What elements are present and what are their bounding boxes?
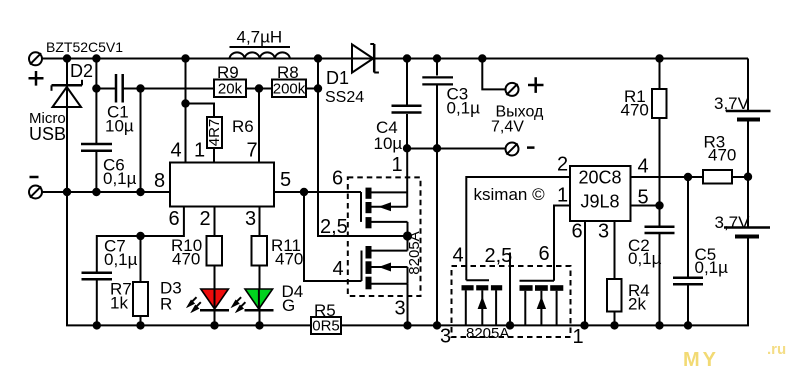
svg-text:0R5: 0R5	[312, 318, 340, 335]
svg-text:2,5: 2,5	[485, 245, 513, 267]
wire right edge upper (to battery GB1)	[747, 59, 749, 111]
svg-text:7: 7	[247, 140, 258, 162]
svg-text:D2: D2	[70, 61, 93, 81]
wire R6 / pin4 column	[185, 59, 187, 163]
node C3 ground	[433, 321, 441, 329]
node pin5 branch	[300, 188, 308, 196]
node C2 ground	[655, 321, 663, 329]
capacitor C2	[628, 227, 675, 268]
node D1 anode rail	[314, 54, 322, 62]
svg-text:1: 1	[392, 154, 403, 176]
svg-text:6: 6	[169, 208, 180, 230]
capacitor C1	[105, 74, 134, 136]
node 2,5 mosfet mid	[403, 231, 412, 240]
resistor R8 200k	[272, 63, 306, 98]
node C1-col bottom	[136, 188, 144, 196]
node C3 mid	[433, 144, 441, 152]
node pin5 IC2 / R1 / C2	[655, 201, 663, 209]
wire pin7 column	[258, 89, 260, 163]
node D2 top / +rail	[63, 54, 71, 62]
svg-text:20C8: 20C8	[578, 168, 621, 188]
label Vyhod 7,4V	[491, 104, 544, 136]
svg-text:10µ: 10µ	[105, 117, 134, 136]
svg-text:2: 2	[557, 154, 568, 176]
svg-text:1: 1	[557, 185, 568, 207]
resistor R3 470	[703, 133, 736, 184]
wire C1 right column	[140, 89, 142, 193]
battery GB1 3,7V	[714, 94, 771, 120]
wire R7 column	[140, 236, 142, 282]
svg-text:20k: 20k	[218, 81, 243, 98]
svg-text:R9: R9	[217, 63, 239, 82]
wire IC1 pin5 to gate 1	[274, 191, 361, 193]
node R1 top rail	[655, 54, 663, 62]
wire plus output	[482, 59, 505, 90]
svg-text:SS24: SS24	[325, 89, 364, 106]
wire battery GB1 to R3 node and battery GB2	[747, 121, 749, 227]
wire C2 column	[659, 206, 661, 226]
wire minus output row	[407, 148, 506, 150]
svg-text:2k: 2k	[628, 295, 646, 314]
node C7 ground	[93, 321, 101, 329]
resistor R11 470	[252, 236, 304, 269]
wire R6 branch to 4R7	[186, 104, 215, 118]
wire battery GB2 to ground rail corner	[341, 238, 748, 325]
node D4 ground	[255, 321, 263, 329]
wire top rail	[42, 58, 748, 60]
wire pin5 branch down to gate 2	[304, 192, 362, 281]
svg-text:3,7V: 3,7V	[715, 213, 751, 232]
resistor R5 0R5	[311, 301, 341, 335]
svg-text:1k: 1k	[110, 294, 128, 313]
node Q1 source ground	[403, 321, 411, 329]
node C5 top	[684, 173, 692, 181]
svg-text:6: 6	[539, 243, 550, 265]
svg-text:J9L8: J9L8	[580, 192, 619, 212]
resistor R9 20k	[214, 63, 246, 98]
svg-text:470: 470	[621, 101, 649, 120]
resistor R7 1k	[110, 280, 148, 317]
node C1 left	[92, 84, 100, 92]
capacitor C4	[374, 106, 422, 153]
node C4 bottom / output-	[403, 144, 411, 152]
mosfet block 2 dashed box	[452, 266, 571, 337]
wire IC1 pin2 / R10 / D3 column	[214, 207, 216, 236]
wire IC2 pin6 column	[584, 221, 586, 325]
mosfet Q2b	[520, 281, 564, 326]
svg-text:3,7V: 3,7V	[714, 94, 750, 113]
node D2 bottom rail	[63, 188, 71, 196]
block1 pin labels	[320, 154, 406, 320]
LED D3 red	[160, 279, 229, 314]
capacitor C5	[673, 245, 728, 284]
node R6 top rail	[181, 54, 189, 62]
svg-text:0,1µ: 0,1µ	[104, 250, 138, 269]
wire minus input rail	[42, 191, 170, 193]
node R4 ground	[610, 321, 618, 329]
input terminal plus	[29, 52, 44, 85]
inductor L1 4,7uH	[230, 28, 291, 59]
wire IC2 pin3 / R4 column	[614, 221, 616, 279]
svg-text:3: 3	[598, 221, 609, 243]
IC U2 box 20C8 J9L8	[557, 154, 649, 243]
wire IC2 pin2 to gate A	[466, 177, 570, 280]
node R9/R8 junction	[255, 84, 263, 92]
node C6 top rail	[92, 54, 100, 62]
wire IC2 pin1 to gate B	[554, 206, 570, 281]
svg-text:3: 3	[395, 298, 406, 320]
svg-text:MY: MY	[683, 349, 719, 371]
svg-text:4,7µH: 4,7µH	[237, 28, 283, 47]
input terminal minus	[29, 177, 42, 199]
svg-text:8: 8	[154, 170, 165, 192]
svg-text:.ru: .ru	[767, 341, 786, 358]
battery GB2 3,7V	[715, 213, 771, 237]
node R6 branch	[181, 99, 189, 107]
svg-text:R6: R6	[232, 117, 254, 136]
capacitor C7	[82, 237, 138, 280]
node R7 top	[136, 232, 144, 240]
svg-text:5: 5	[280, 169, 291, 191]
diode D1 SS24	[325, 44, 379, 106]
mosfet Q1a	[361, 148, 408, 236]
svg-text:3: 3	[440, 326, 451, 348]
wire 4R7 to pin1	[213, 148, 215, 163]
svg-text:R8: R8	[277, 63, 299, 82]
svg-text:5: 5	[638, 187, 649, 209]
node C6 bottom	[92, 188, 100, 196]
svg-text:10µ: 10µ	[374, 134, 403, 153]
svg-text:ksiman ©: ksiman ©	[474, 185, 546, 204]
capacitor C6	[81, 144, 137, 188]
node C5 ground	[684, 321, 692, 329]
svg-text:4: 4	[333, 258, 344, 280]
node pin6 IC2 ground	[580, 321, 588, 329]
svg-text:R: R	[160, 295, 172, 314]
node R7 ground	[136, 321, 144, 329]
mosfet block 1 dashed box	[348, 177, 421, 296]
node D3 ground	[210, 321, 218, 329]
capacitor C3	[422, 77, 480, 117]
wire IC1 pin6 to C7	[97, 207, 184, 272]
node C1 right	[136, 84, 144, 92]
svg-text:470: 470	[708, 146, 736, 165]
wire C1/R9/R8 row	[96, 88, 115, 90]
svg-text:4R7: 4R7	[206, 119, 223, 147]
svg-text:4: 4	[171, 140, 182, 162]
node R8 right	[314, 84, 322, 92]
wire IC2 pin5 row	[631, 205, 660, 207]
wire 2,5 stub block2	[509, 253, 511, 326]
LED D4 green	[232, 282, 303, 315]
svg-text:6: 6	[572, 221, 583, 243]
svg-text:G: G	[282, 296, 295, 315]
block2 pin labels	[440, 243, 584, 348]
resistor R6 4R7	[206, 117, 254, 148]
wire R1 column	[659, 59, 661, 90]
svg-text:2,5: 2,5	[320, 216, 348, 238]
svg-text:3: 3	[245, 208, 256, 230]
svg-text:470: 470	[275, 250, 303, 269]
zener diode D2 BZT52C5V1	[46, 39, 123, 107]
wire IC1 pin3 / R11 / D4 column	[259, 207, 261, 236]
IC U1 box	[154, 140, 291, 231]
svg-text:4: 4	[453, 245, 464, 267]
mosfet Q2a	[462, 280, 503, 325]
wire ground rail left part	[67, 192, 311, 325]
wire C5 column	[687, 177, 689, 277]
svg-text:2: 2	[200, 208, 211, 230]
wire C6 column	[95, 59, 97, 144]
wire C4 column	[406, 59, 408, 105]
node 2,5-stub ground	[506, 321, 514, 329]
wire D1/R8 column and 2,5 wire	[318, 59, 408, 237]
label Micro USB	[29, 110, 66, 144]
resistor R1 470	[621, 87, 667, 120]
svg-text:1: 1	[194, 140, 205, 162]
node R3 right / battery	[744, 173, 752, 181]
node C3 top rail	[433, 54, 441, 62]
svg-text:8205A: 8205A	[466, 325, 509, 342]
svg-text:D1: D1	[326, 68, 349, 88]
svg-text:470: 470	[172, 250, 200, 269]
svg-text:4: 4	[638, 156, 649, 178]
output terminal minus	[506, 143, 535, 156]
resistor R4 2k	[607, 279, 650, 314]
svg-text:0,1µ: 0,1µ	[695, 258, 729, 277]
svg-text:0,1µ: 0,1µ	[103, 169, 137, 188]
svg-text:0,1µ: 0,1µ	[447, 99, 481, 118]
svg-text:BZT52C5V1: BZT52C5V1	[46, 39, 123, 55]
svg-text:6: 6	[332, 168, 343, 190]
svg-text:7,4V: 7,4V	[491, 119, 524, 136]
output terminal plus	[506, 77, 544, 96]
svg-text:0,1µ: 0,1µ	[628, 249, 662, 268]
wire IC2 pin4 row	[631, 176, 704, 178]
svg-text:1: 1	[573, 326, 584, 348]
mosfet Q1b	[362, 236, 408, 325]
svg-text:200k: 200k	[273, 81, 306, 98]
wire D2 column	[66, 59, 68, 193]
node output+ rail	[478, 54, 486, 62]
svg-text:USB: USB	[29, 124, 66, 144]
wire C3 column	[436, 59, 438, 76]
resistor R10 470	[171, 236, 222, 269]
node C4 top rail	[403, 54, 411, 62]
